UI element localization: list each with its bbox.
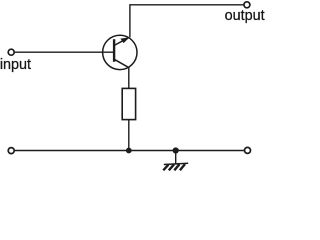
output terminal	[244, 2, 250, 8]
bottom rail wire	[14, 150, 244, 152]
resistor	[122, 88, 135, 119]
wire emitter up and to output	[130, 5, 244, 38]
svg-text:output: output	[225, 8, 265, 24]
input terminal	[8, 49, 14, 55]
bottom right terminal	[245, 147, 251, 153]
junction ground-rail	[173, 147, 179, 153]
ground	[163, 151, 188, 171]
junction resistor-rail	[126, 148, 132, 154]
wire input to base	[14, 51, 113, 53]
wire resistor to bottom rail	[128, 120, 130, 151]
svg-text:input: input	[0, 57, 31, 73]
transistor Q1	[103, 35, 137, 69]
bottom left terminal	[8, 148, 14, 154]
wire collector to resistor	[128, 68, 130, 89]
